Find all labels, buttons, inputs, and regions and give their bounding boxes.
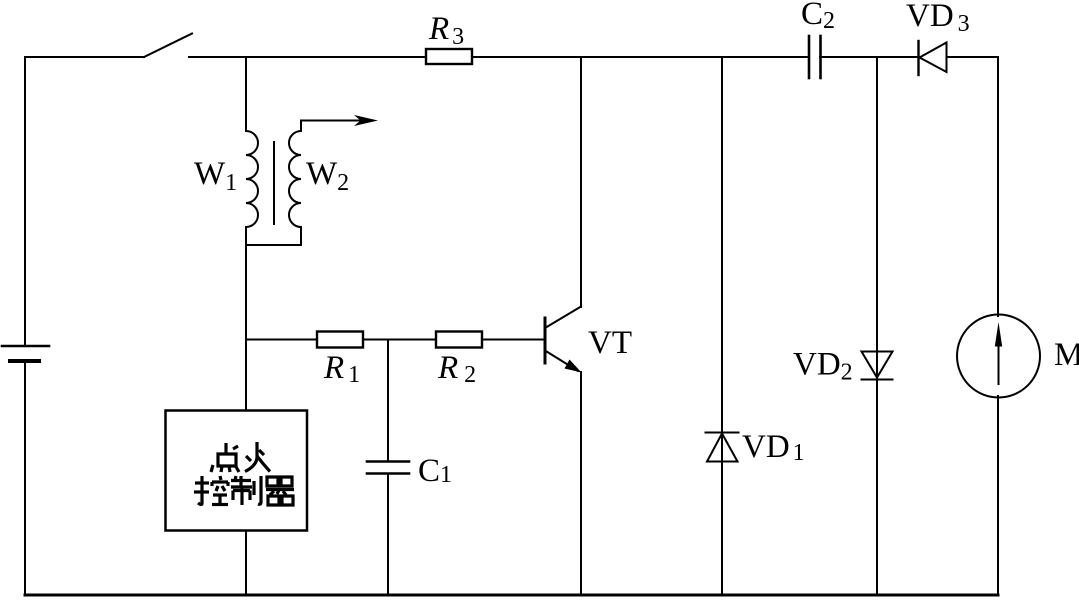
wire VD2 branch bbox=[876, 57, 878, 594]
transistor VT emitter diagonal bbox=[545, 351, 578, 372]
capacitor C1 bottom plate bbox=[367, 472, 409, 475]
transistor VT base bar bbox=[544, 318, 547, 363]
wire controller box lower bbox=[245, 531, 247, 594]
ignition controller box bbox=[166, 411, 308, 531]
diode VD3 triangle bbox=[920, 43, 947, 73]
switch S blade bbox=[144, 34, 192, 58]
transformer core bbox=[273, 142, 275, 224]
wire top rail middle segment bbox=[189, 56, 808, 58]
arrow VT emitter bbox=[565, 360, 582, 373]
wire VD1 branch bbox=[721, 57, 723, 594]
char kong bbox=[194, 476, 228, 505]
wire W2 bottom lead bbox=[246, 227, 301, 245]
diode VD2 cathode bar bbox=[862, 379, 893, 381]
svg-text:C1: C1 bbox=[418, 453, 452, 489]
char huo bbox=[245, 442, 270, 472]
wire top rail right of C2 bbox=[820, 56, 918, 58]
wire bottom rail bbox=[25, 594, 998, 597]
wire transformer branch lower bbox=[245, 227, 247, 411]
diode VD3 cathode bar bbox=[917, 41, 919, 75]
svg-text:W2: W2 bbox=[306, 156, 349, 196]
motor M arrow shaft bbox=[998, 332, 1000, 384]
arrow W2 output bbox=[354, 115, 378, 126]
wire W2 top lead bbox=[301, 121, 362, 132]
wire top rail right of VD3 bbox=[947, 56, 998, 58]
resistor R2 bbox=[436, 332, 482, 348]
diode VD1 cathode bar bbox=[706, 432, 739, 434]
wire C1 branch upper bbox=[387, 340, 389, 462]
battery GB short plate bbox=[10, 359, 39, 363]
text ignition controller characters bbox=[194, 442, 294, 505]
wire C1 branch lower bbox=[387, 474, 389, 594]
char dian bbox=[211, 443, 239, 472]
char qi bbox=[266, 477, 294, 505]
wire R2 to VT base bbox=[482, 339, 544, 341]
wire between R1 and R2 bbox=[363, 339, 436, 341]
svg-text:R3: R3 bbox=[428, 11, 464, 50]
resistor R3 bbox=[426, 49, 472, 64]
transistor VT collector diagonal bbox=[545, 307, 581, 329]
wire right rail upper bbox=[997, 57, 999, 316]
wire transformer branch upper bbox=[245, 57, 247, 131]
wire left rail upper bbox=[24, 57, 26, 346]
svg-text:M: M bbox=[1054, 337, 1079, 373]
wire emitter branch bbox=[580, 372, 582, 594]
svg-text:C2: C2 bbox=[801, 0, 835, 34]
wire collector branch bbox=[580, 57, 582, 307]
inductor W1 primary coil bbox=[246, 131, 258, 227]
arrow motor M head bbox=[995, 322, 1002, 347]
inductor W2 secondary coil bbox=[289, 131, 301, 227]
svg-text:W1: W1 bbox=[194, 156, 237, 196]
battery GB long plate bbox=[2, 345, 49, 348]
motor M circle bbox=[957, 315, 1040, 398]
wire left rail lower bbox=[24, 361, 26, 594]
wire base row left bbox=[246, 339, 317, 341]
wire top rail left segment bbox=[25, 56, 144, 58]
svg-text:VT: VT bbox=[588, 325, 632, 361]
diode VD1 triangle bbox=[707, 434, 738, 462]
svg-text:VD2: VD2 bbox=[793, 347, 853, 386]
resistor R1 bbox=[317, 332, 363, 348]
capacitor C2 left plate bbox=[808, 36, 811, 78]
svg-text:R1: R1 bbox=[323, 350, 360, 388]
char zhi bbox=[231, 476, 261, 505]
svg-text:R2: R2 bbox=[437, 350, 476, 388]
capacitor C1 top plate bbox=[367, 460, 409, 463]
svg-text:VD3: VD3 bbox=[906, 0, 970, 37]
svg-text:VD1: VD1 bbox=[742, 429, 805, 466]
capacitor C2 right plate bbox=[819, 36, 822, 78]
wire right rail lower bbox=[997, 396, 999, 594]
diode VD2 triangle bbox=[862, 352, 893, 378]
